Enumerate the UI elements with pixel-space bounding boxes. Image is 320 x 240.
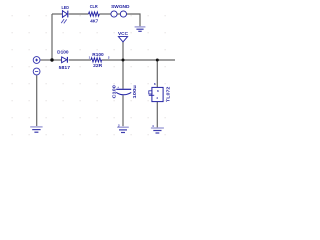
svg-text:SWGND: SWGND [111,4,130,9]
svg-text:C100: C100 [112,84,117,98]
svg-text:LED: LED [62,5,70,10]
svg-text:22R: 22R [93,63,103,68]
svg-text:D100: D100 [57,49,69,54]
svg-text:R100: R100 [92,52,104,57]
svg-text:+: + [117,85,119,89]
svg-text:CLR: CLR [90,4,99,9]
svg-text:5817: 5817 [59,65,71,70]
svg-text:VCC: VCC [118,31,129,36]
svg-text:TL072: TL072 [166,86,171,102]
svg-text:4K7: 4K7 [90,19,98,24]
svg-text:100u: 100u [132,85,137,99]
